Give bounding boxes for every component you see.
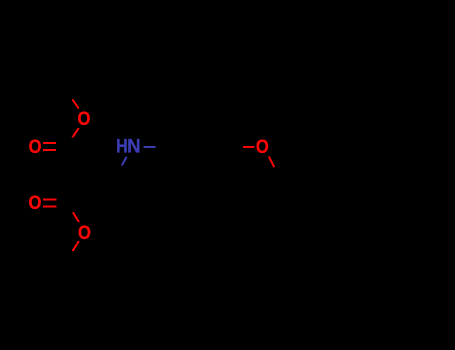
bond O4-CH2 (red half) xyxy=(73,241,79,251)
bond O2-CH2 (red half) xyxy=(72,99,78,108)
wire: ethyl CH2-CH3 (top ester, black invisible) xyxy=(66,62,80,90)
amine H label xyxy=(116,135,128,157)
svg-text:O: O xyxy=(28,192,41,214)
carbonyl O label O3 (bottom ester) xyxy=(28,192,41,214)
bond C1-O2 (red half) xyxy=(73,128,79,137)
wire: Ccentral=CH double bond xyxy=(90,173,118,181)
bond N-CH (blue half) xyxy=(122,157,127,166)
double bond C1=O1 (red half) xyxy=(43,143,56,150)
ether O label O5 xyxy=(256,136,269,158)
svg-text:O: O xyxy=(256,136,269,158)
svg-text:H: H xyxy=(116,135,128,157)
ester O label O4 (bottom ester) xyxy=(78,222,91,244)
wire: O4-CH2 black half (bottom ester) xyxy=(66,251,73,261)
bond C2-O4 (red half) xyxy=(73,212,79,222)
wire: C1-Ccentral bond xyxy=(67,146,90,173)
double bond C2=O3 (red half) xyxy=(43,200,56,207)
carbonyl O label O1 (top ester) xyxy=(29,136,42,158)
svg-text:O: O xyxy=(78,222,91,244)
wire: ethyl CH2-CH3 (bottom ester, black invisible) xyxy=(66,262,80,290)
svg-text:O: O xyxy=(78,108,91,130)
svg-text:N: N xyxy=(127,136,141,157)
bond O5-CH2 (red half) xyxy=(269,157,274,168)
svg-text:O: O xyxy=(29,136,42,158)
amine N label xyxy=(127,136,141,157)
wire: C4ring-O5 black half xyxy=(231,146,243,148)
wire: N-C1ring black half xyxy=(156,146,168,148)
bond N-C1ring (blue half) xyxy=(143,146,155,148)
benzene ring (black invisible) xyxy=(168,121,231,174)
wire: O2-CH2 black half (top ester) xyxy=(66,90,72,99)
ester O label O2 (top ester) xyxy=(78,108,91,130)
wire: O5-CH2 black half and alkyl chain (invisible) xyxy=(274,167,436,195)
bond C4ring-O5 (red half) xyxy=(243,146,255,148)
wire: C2-Ccentral bond xyxy=(67,173,90,203)
wire: CH-N black half xyxy=(117,166,122,175)
